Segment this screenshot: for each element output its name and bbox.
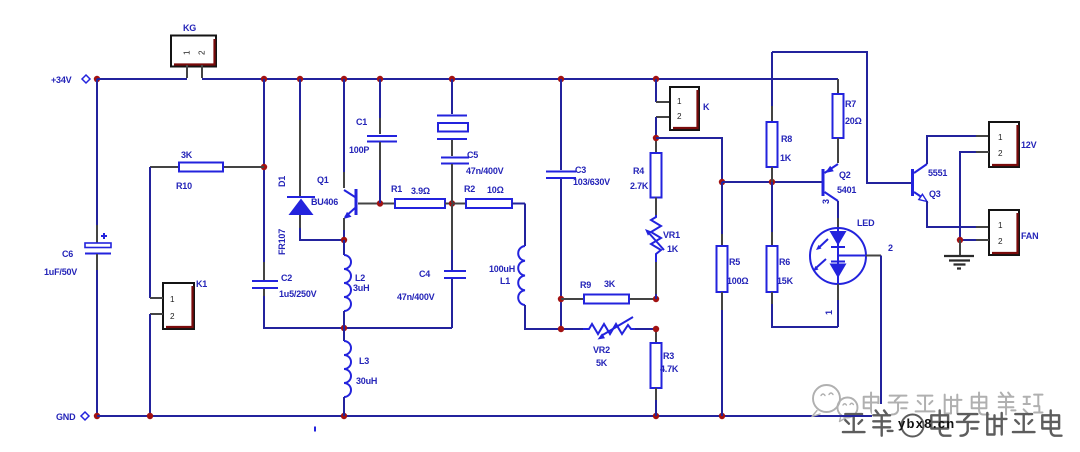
- svg-text:2: 2: [998, 237, 1003, 246]
- crystal symbol above C5: [437, 79, 468, 139]
- wire top bus left: [97, 78, 187, 80]
- svg-text:12V: 12V: [1021, 140, 1037, 150]
- wire Q3 collector to 12V: [927, 136, 976, 164]
- resistor R5: [717, 182, 749, 416]
- potentiometer VR2: [583, 317, 656, 368]
- svg-text:R10: R10: [176, 181, 192, 191]
- svg-text:1: 1: [824, 310, 834, 315]
- capacitor C2: [252, 262, 452, 328]
- capacitor C5: [441, 140, 504, 203]
- svg-text:R6: R6: [779, 257, 790, 267]
- transistor Q3 5551: [911, 164, 947, 202]
- resistor R7: [833, 79, 862, 163]
- wire R10 to K1: [149, 167, 151, 298]
- svg-text:1: 1: [677, 97, 682, 106]
- svg-text:2.7K: 2.7K: [630, 181, 649, 191]
- svg-text:VR1: VR1: [663, 230, 680, 240]
- junction x772 base line: [769, 179, 775, 185]
- svg-text:47n/400V: 47n/400V: [397, 292, 435, 302]
- svg-text:+34V: +34V: [51, 75, 72, 85]
- potentiometer VR1: [645, 215, 680, 299]
- connector FAN: [989, 210, 1038, 255]
- resistor R3: [651, 329, 679, 416]
- ground: [944, 240, 974, 269]
- svg-text:10Ω: 10Ω: [487, 185, 504, 195]
- pin 12V-1: [976, 135, 989, 137]
- svg-text:2: 2: [170, 312, 175, 321]
- inductor L2: [344, 240, 369, 328]
- svg-text:5551: 5551: [928, 168, 947, 178]
- svg-text:1K: 1K: [780, 153, 792, 163]
- node +34V terminal: [51, 75, 90, 85]
- svg-text:C2: C2: [281, 273, 292, 283]
- svg-text:Q1: Q1: [317, 175, 329, 185]
- junction +34V: [94, 76, 100, 82]
- wire Q2 base line: [722, 181, 822, 183]
- capacitor C1: [349, 79, 397, 203]
- svg-text:GND: GND: [56, 412, 76, 422]
- svg-text:LED: LED: [857, 218, 875, 228]
- svg-text:Q2: Q2: [839, 170, 851, 180]
- svg-text:1: 1: [183, 50, 192, 55]
- svg-text:K1: K1: [196, 279, 207, 289]
- svg-text:1: 1: [998, 133, 1003, 142]
- junction bus x452: [449, 76, 455, 82]
- svg-text:KG: KG: [183, 23, 196, 33]
- svg-text:3K: 3K: [181, 150, 193, 160]
- junction x656 R9: [653, 296, 659, 302]
- svg-text:3uH: 3uH: [353, 283, 369, 293]
- svg-text:R5: R5: [729, 257, 740, 267]
- inductor L1: [489, 204, 583, 330]
- svg-text:4.7K: 4.7K: [660, 364, 679, 374]
- resistor R10: [150, 150, 264, 191]
- svg-text:K: K: [703, 102, 710, 112]
- junction bus bottom x150: [147, 413, 153, 419]
- resistor R4: [630, 138, 662, 215]
- connector 12V: [989, 122, 1037, 167]
- node GND terminal: [56, 412, 89, 422]
- junction x561 R9: [558, 296, 564, 302]
- junction K pin2 node: [653, 135, 659, 141]
- junction bus x264: [261, 76, 267, 82]
- svg-text:R8: R8: [781, 134, 792, 144]
- junction bus bottom x344: [341, 413, 347, 419]
- junction Q1 emitter node: [341, 237, 347, 243]
- pin KG-2: [201, 65, 203, 78]
- wire top bus main: [202, 78, 838, 80]
- svg-text:3K: 3K: [604, 279, 616, 289]
- wire 12V pin2 to ground node: [960, 152, 976, 240]
- wire column x264 upper: [263, 79, 265, 262]
- connector KG: [171, 23, 216, 67]
- svg-text:L3: L3: [359, 356, 369, 366]
- junction bus bottom x722: [719, 413, 725, 419]
- svg-text:5401: 5401: [837, 185, 856, 195]
- svg-text:1uF/50V: 1uF/50V: [44, 267, 77, 277]
- wire Q3 emitter to FAN: [927, 201, 976, 227]
- svg-text:103/630V: 103/630V: [573, 177, 610, 187]
- svg-text:R7: R7: [845, 99, 856, 109]
- junction ground node: [957, 237, 963, 243]
- capacitor C3: [546, 79, 610, 329]
- junction bus bottom x656: [653, 413, 659, 419]
- svg-text:VR2: VR2: [593, 345, 610, 355]
- svg-text:R2: R2: [464, 184, 475, 194]
- junction bus x561: [558, 76, 564, 82]
- svg-text:47n/400V: 47n/400V: [466, 166, 504, 176]
- svg-text:FAN: FAN: [1021, 231, 1038, 241]
- svg-text:100P: 100P: [349, 145, 369, 155]
- svg-text:1: 1: [170, 295, 175, 304]
- junction base node x380: [377, 200, 383, 206]
- svg-text:5K: 5K: [596, 358, 608, 368]
- svg-text:L2: L2: [355, 273, 365, 283]
- junction x561 VR2: [558, 326, 564, 332]
- svg-text:100uH: 100uH: [489, 264, 515, 274]
- pin KG-1: [186, 65, 188, 78]
- junction bus x300: [297, 76, 303, 82]
- wire bottom bus: [97, 415, 881, 417]
- junction base node x452: [449, 200, 455, 206]
- capacitor C4: [397, 204, 466, 328]
- svg-text:2: 2: [198, 50, 207, 55]
- svg-text:3.9Ω: 3.9Ω: [411, 186, 430, 196]
- pin 12V-2: [976, 151, 989, 153]
- svg-text:C4: C4: [419, 269, 430, 279]
- resistor R9: [561, 279, 656, 304]
- resistor R2: [452, 184, 525, 208]
- junction bus x344: [341, 76, 347, 82]
- inductor L3: [344, 328, 377, 416]
- svg-text:3: 3: [821, 199, 831, 204]
- svg-text:C1: C1: [356, 117, 367, 127]
- svg-text:30uH: 30uH: [356, 376, 377, 386]
- transistor Q1 BU406: [311, 79, 395, 240]
- svg-text:C5: C5: [467, 150, 478, 160]
- wire top right link: [772, 52, 911, 183]
- junction R10 right: [261, 164, 267, 170]
- svg-text:2: 2: [677, 112, 682, 121]
- svg-text:15K: 15K: [777, 276, 794, 286]
- svg-text:D1: D1: [277, 176, 287, 187]
- svg-text:C6: C6: [62, 249, 73, 259]
- junction bus x380: [377, 76, 383, 82]
- svg-text:1u5/250V: 1u5/250V: [279, 289, 317, 299]
- svg-text:FR107: FR107: [277, 229, 287, 255]
- resistor R6: [767, 182, 839, 327]
- junction bus x656: [653, 76, 659, 82]
- connector K: [656, 79, 710, 138]
- pin K1-1: [150, 297, 163, 299]
- svg-text:R9: R9: [580, 280, 591, 290]
- svg-text:ybx8.cn: ybx8.cn: [898, 416, 956, 431]
- junction x722 base line: [719, 179, 725, 185]
- wire LED pin2 visible over watermark: [880, 380, 882, 403]
- LED: [810, 218, 893, 327]
- watermark: [812, 384, 1062, 437]
- wire LED pin2 down: [880, 256, 882, 417]
- capacitor C6: [44, 79, 111, 416]
- junction x656 VR2: [653, 326, 659, 332]
- pin K1-2: [150, 313, 163, 315]
- svg-text:C3: C3: [575, 165, 586, 175]
- junction L2 bottom: [341, 325, 347, 331]
- resistor R1: [391, 184, 452, 208]
- junction GND: [94, 413, 100, 419]
- svg-text:R4: R4: [633, 166, 644, 176]
- transistor Q2 5401: [821, 164, 856, 218]
- wire K node to R5 column: [656, 138, 722, 182]
- pin FAN-1: [976, 226, 989, 228]
- svg-text:L1: L1: [500, 276, 510, 286]
- svg-text:2: 2: [998, 149, 1003, 158]
- svg-text:R3: R3: [663, 351, 674, 361]
- wire K1 to ground bus: [149, 314, 151, 416]
- connector K1: [163, 279, 207, 329]
- wire bottom bus visible over watermark: [830, 415, 872, 417]
- svg-text:1K: 1K: [667, 244, 679, 254]
- pin mark below bus: [314, 427, 316, 432]
- svg-text:20Ω: 20Ω: [845, 116, 862, 126]
- svg-text:R1: R1: [391, 184, 402, 194]
- svg-text:100Ω: 100Ω: [727, 276, 748, 286]
- pin FAN-2: [976, 239, 989, 241]
- diode D1 FR107: [277, 79, 344, 255]
- svg-text:1: 1: [998, 221, 1003, 230]
- resistor R8: [767, 52, 793, 182]
- svg-text:2: 2: [888, 243, 893, 253]
- svg-text:BU406: BU406: [311, 197, 338, 207]
- svg-text:Q3: Q3: [929, 189, 941, 199]
